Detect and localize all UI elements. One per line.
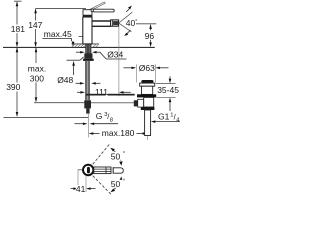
lever shaft top view <box>94 167 111 174</box>
96 reference line <box>136 23 156 25</box>
max180 dimension <box>89 132 94 135</box>
drain plug cap <box>141 80 153 83</box>
dimension max.300 line <box>35 48 37 101</box>
svg-text:41: 41 <box>76 184 86 194</box>
35-45 arrows <box>169 76 171 80</box>
faucet cartridge cap <box>83 10 92 16</box>
drain bottom flange <box>137 94 156 97</box>
top reference line for 181 <box>14 0 22 2</box>
svg-text:Ø48: Ø48 <box>57 75 73 85</box>
drain O63 dimension <box>124 67 132 69</box>
svg-text:390: 390 <box>6 82 20 92</box>
deck reference line <box>3 46 155 48</box>
O34 arrows at shank <box>76 51 81 53</box>
reference line for 147 <box>35 7 86 9</box>
spout tube <box>92 20 110 22</box>
41 extension lines <box>78 169 83 171</box>
trap locknut <box>141 107 155 110</box>
drain side port block <box>134 100 138 106</box>
svg-text:G1: G1 <box>158 112 170 122</box>
O63 extension lines <box>136 64 138 82</box>
O48 leader line <box>67 59 81 61</box>
dimension 390 line <box>16 48 18 116</box>
faucet body <box>83 17 92 44</box>
svg-text:G: G <box>96 111 103 121</box>
G1 1/4 leader arrow <box>155 121 181 123</box>
lever raised position rod <box>86 2 104 11</box>
threaded shank <box>85 44 91 53</box>
aerator block <box>111 20 119 26</box>
lever grip top view <box>113 168 123 173</box>
lever grip bar side view <box>93 9 114 12</box>
svg-text:40: 40 <box>126 18 136 28</box>
O48 up arrow <box>73 65 75 76</box>
svg-text:max.45: max.45 <box>44 29 72 39</box>
40 degree fan lines <box>119 12 132 23</box>
svg-text:50: 50 <box>111 151 121 161</box>
svg-text:Ø34: Ø34 <box>107 49 123 59</box>
upper arc arrow <box>126 8 130 12</box>
deck section top line <box>72 43 99 45</box>
dimension 111 row <box>77 91 82 93</box>
top view circle <box>83 165 93 175</box>
G3/8 fitting <box>84 100 91 108</box>
35-45 reference lines <box>156 83 176 85</box>
G3/8 arrow row <box>75 123 85 125</box>
deck hatching left <box>72 44 86 47</box>
svg-text:50: 50 <box>111 179 121 189</box>
svg-text:35-45: 35-45 <box>157 85 179 95</box>
bottom reference line of 390 <box>4 116 89 118</box>
lever knob bar <box>87 167 90 174</box>
O48 lower arrows at hose <box>76 82 82 84</box>
extension line at spout tip <box>118 27 120 96</box>
pop-up rod lower gray <box>91 102 134 104</box>
upper 50 arc <box>113 150 121 161</box>
max180 extension left <box>87 114 89 137</box>
svg-text:111: 111 <box>95 87 108 97</box>
mounting nut <box>84 54 92 59</box>
dashed 50deg line upper <box>93 144 110 165</box>
lever joint <box>91 9 94 12</box>
pop-up rod upper bar <box>86 94 105 96</box>
tailpipe <box>145 110 151 136</box>
supply hose <box>85 61 89 100</box>
drain flange ring <box>140 83 155 86</box>
41 dimension arrows <box>71 188 76 190</box>
bottom reference line of max300 <box>34 102 85 104</box>
dimension 96 <box>150 25 152 31</box>
lower 50 arc <box>113 180 121 191</box>
dimension 147 line <box>35 9 37 46</box>
svg-text:96: 96 <box>145 31 155 41</box>
dimension 181 line <box>16 2 18 46</box>
body base stub line <box>79 35 83 37</box>
svg-text:181: 181 <box>11 24 25 34</box>
svg-text:max.: max. <box>28 63 46 73</box>
svg-text:8: 8 <box>110 117 113 123</box>
washer plate <box>83 59 94 61</box>
deck hatching right <box>93 44 99 47</box>
lower arc arrow <box>126 30 130 35</box>
port connector <box>138 99 144 107</box>
dashed 50deg line lower <box>93 176 112 195</box>
drain body <box>142 86 153 94</box>
svg-text:147: 147 <box>28 20 42 30</box>
svg-text:300: 300 <box>30 73 44 83</box>
svg-text:Ø63: Ø63 <box>139 63 155 73</box>
drain mid pipe <box>144 97 154 107</box>
svg-text:max.180: max.180 <box>102 128 135 138</box>
